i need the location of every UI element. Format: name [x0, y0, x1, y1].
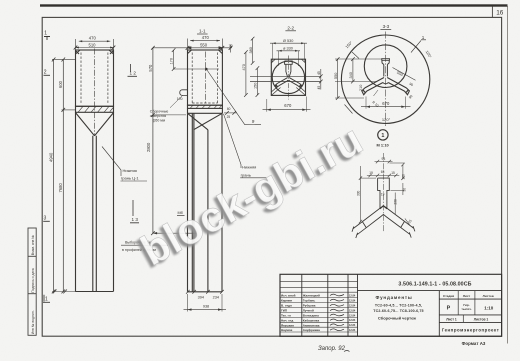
column K2 head bottom hatch band	[188, 105, 223, 108]
svg-text:Лучной: Лучной	[303, 309, 314, 313]
svg-text:938: 938	[203, 304, 209, 308]
svg-text:Кармин: Кармин	[281, 299, 292, 303]
svg-text:1: 1	[422, 35, 425, 40]
K2 under-box	[187, 108, 189, 113]
section 2-2 top corner marks	[271, 59, 305, 63]
left margin stamp strip	[28, 228, 36, 335]
svg-text:Листов: Листов	[483, 294, 494, 298]
svg-text:ТС2-60-4,5... ТС2-100-4,5,: ТС2-60-4,5... ТС2-100-4,5,	[375, 303, 422, 307]
svg-text:550: 550	[334, 73, 338, 79]
section 2-2 circle	[272, 61, 304, 93]
svg-text:600: 600	[58, 80, 63, 88]
svg-text:Инв № подлин.: Инв № подлин.	[31, 310, 35, 334]
svg-text:Фундаменты: Фундаменты	[375, 295, 412, 300]
svg-text:470: 470	[242, 64, 246, 70]
section 3-3 triradial pile section	[362, 59, 410, 95]
svg-text:3-3: 3-3	[383, 24, 390, 29]
detail-1 arm break continuations	[352, 221, 415, 238]
column K2 centre hole dot	[205, 68, 208, 71]
title block right sub-table	[438, 291, 440, 337]
svg-text:В. отдл: В. отдл	[281, 304, 292, 308]
svg-text:510: 510	[89, 42, 97, 47]
svg-text:Взам. инв №: Взам. инв №	[31, 235, 35, 255]
svg-text:3: 3	[44, 216, 47, 222]
title block vertical dividers left table	[301, 274, 303, 336]
label leader to face mark K1	[102, 147, 121, 177]
arm dimension 550 rotated	[393, 68, 416, 81]
watermark block-gbi.ru	[131, 117, 370, 279]
svg-text:19: 19	[381, 193, 385, 197]
svg-text:Рубцова: Рубцова	[303, 304, 316, 308]
svg-text:Акимонова: Акимонова	[303, 323, 320, 327]
svg-text:470: 470	[202, 35, 210, 40]
svg-text:12.84: 12.84	[349, 314, 356, 317]
svg-text:230: 230	[394, 199, 398, 205]
svg-text:234: 234	[213, 296, 219, 300]
svg-text:Запор. 92: Запор. 92	[318, 346, 346, 352]
svg-text:12.84: 12.84	[349, 294, 356, 297]
svg-text:1: 1	[381, 133, 384, 139]
svg-text:ø 330: ø 330	[283, 47, 293, 51]
column K2 head centerline	[204, 52, 206, 105]
section 2-2 triradial core	[275, 61, 301, 88]
svg-text:Лист: Лист	[463, 294, 471, 298]
svg-text:Стадия: Стадия	[443, 294, 454, 298]
svg-text:Жалницкий: Жалницкий	[302, 294, 320, 298]
svg-text:12.84: 12.84	[349, 324, 356, 327]
column K1 head bottom hatch band	[76, 106, 114, 112]
svg-text:9: 9	[252, 119, 255, 124]
column K2 head inner dashed walls	[191, 53, 193, 104]
top heavy sheet edge line	[40, 4, 508, 6]
svg-text:93: 93	[382, 157, 386, 161]
left dims of 3-3	[337, 59, 339, 98]
svg-text:Горбань: Горбань	[303, 299, 316, 303]
svg-text:380: 380	[249, 47, 253, 53]
svg-text:550: 550	[200, 43, 208, 48]
svg-text:12.84: 12.84	[349, 309, 356, 312]
svg-text:2800: 2800	[146, 142, 151, 152]
svg-text:Генпромэнергопроект: Генпромэнергопроект	[442, 327, 499, 332]
svg-text:Наумов: Наумов	[281, 328, 292, 332]
left table small texts	[281, 294, 320, 333]
svg-text:ТС2-60-6,75... ТС8-100-6,75: ТС2-60-6,75... ТС8-100-6,75	[373, 309, 423, 313]
svg-text:12.84: 12.84	[349, 305, 356, 308]
svg-text:45: 45	[317, 71, 321, 75]
svg-text:Нач. отд: Нач. отд	[281, 318, 293, 322]
K1 dimension extension lines	[52, 58, 76, 60]
svg-text:Исч. вной: Исч. вной	[281, 294, 296, 298]
column K1 head inner dashed walls	[80, 53, 82, 105]
right sheet edge line	[507, 6, 509, 344]
page number box 16	[491, 7, 493, 18]
svg-text:170: 170	[170, 58, 174, 64]
K2 right side rotated dims 470 380 150	[245, 52, 247, 95]
svg-text:Кабашкова: Кабашкова	[303, 318, 320, 322]
svg-text:грань Ц-1: грань Ц-1	[121, 176, 140, 181]
svg-text:60: 60	[227, 107, 231, 111]
svg-text:Сборочные: Сборочные	[150, 109, 169, 113]
detail bubble 1	[378, 130, 388, 140]
leader from hole to position 9	[206, 69, 261, 125]
svg-text:670: 670	[284, 103, 292, 108]
svg-text:Тех. гл: Тех. гл	[281, 314, 291, 318]
svg-text:7680: 7680	[58, 183, 63, 193]
svg-text:ГИП: ГИП	[281, 309, 287, 313]
signature squiggles	[330, 294, 344, 330]
column K1 centerline	[94, 49, 96, 137]
K2 taper cross lines	[188, 113, 223, 130]
column K1 taper V	[76, 113, 114, 136]
svg-text:Лист 1: Лист 1	[446, 318, 457, 322]
date column small entries	[349, 294, 356, 332]
svg-text:12.84: 12.84	[349, 299, 356, 302]
column K1 shaft outer edges	[75, 112, 77, 291]
svg-text:4940: 4940	[49, 152, 54, 162]
svg-text:45: 45	[317, 86, 321, 90]
svg-text:12.84: 12.84	[349, 319, 356, 322]
section 3-3 centerline	[385, 32, 387, 127]
K1 left dimension line 4940	[53, 59, 55, 291]
svg-text:тысяч.: тысяч.	[461, 307, 471, 311]
svg-text:670: 670	[382, 101, 390, 106]
svg-text:1:10: 1:10	[484, 305, 494, 310]
svg-text:Якушкин: Якушкин	[281, 323, 294, 327]
leader with position 1	[411, 41, 421, 53]
svg-text:3.506.1-149.1-1 - 05.08.00СБ: 3.506.1-149.1-1 - 05.08.00СБ	[398, 281, 471, 287]
svg-text:25: 25	[227, 115, 231, 119]
svg-text:1-1: 1-1	[199, 29, 206, 34]
label leader нижняя грань K2	[224, 114, 242, 168]
section 2-2 right dims 45 45	[320, 69, 322, 90]
svg-text:1: 1	[44, 31, 47, 37]
K1 second dimension line 600 / 7680	[62, 59, 64, 291]
svg-text:1 3: 1 3	[132, 217, 139, 222]
column K1 head box	[76, 50, 114, 106]
svg-text:Вологдина: Вологдина	[303, 314, 319, 318]
section 3-3 inner circle	[364, 45, 407, 88]
column K1 bottom edge	[76, 291, 114, 293]
detail-1 rail profile shape	[378, 178, 390, 209]
title block document number cell	[358, 290, 502, 292]
section 2-2 centerline vertical	[287, 56, 289, 100]
svg-text:Сборочный чертеж: Сборочный чертеж	[378, 315, 416, 320]
section 2-2 corner chamfer lines	[271, 86, 305, 95]
column K1 head corner marks	[76, 50, 114, 54]
svg-text:отверстия: отверстия	[150, 114, 166, 118]
title block outer box	[280, 274, 502, 336]
svg-text:120°: 120°	[382, 117, 391, 122]
detail-1 centerline	[382, 153, 384, 232]
svg-text:2: 2	[44, 70, 47, 76]
svg-text:Формат А3: Формат А3	[462, 341, 486, 346]
svg-text:210: 210	[359, 85, 363, 91]
svg-text:1: 1	[45, 297, 48, 303]
svg-text:330: 330	[356, 190, 360, 196]
svg-text:Листов 1: Листов 1	[474, 318, 489, 322]
section 2-2 brace bars horizontal	[250, 75, 321, 77]
drawing frame border	[42, 17, 501, 336]
svg-text:ф50 мм: ф50 мм	[153, 119, 166, 123]
title block left table row lines	[280, 281, 358, 332]
svg-text:340: 340	[349, 72, 353, 78]
svg-text:16: 16	[496, 10, 504, 17]
section 3-3 outer circle	[341, 35, 429, 123]
K2 lifting loop left	[180, 90, 188, 96]
svg-text:394: 394	[198, 295, 204, 299]
svg-text:570: 570	[148, 64, 153, 72]
svg-text:Подпись и дата: Подпись и дата	[31, 268, 35, 293]
section 2-2 outer square	[271, 59, 305, 95]
column K2 head box	[188, 50, 223, 105]
column K2 shaft edges	[187, 113, 189, 291]
svg-text:М 1:10: М 1:10	[377, 142, 389, 147]
svg-text:15: 15	[391, 171, 395, 175]
svg-text:Р: Р	[447, 306, 451, 312]
svg-text:Ø 530: Ø 530	[283, 39, 293, 43]
column K2 head corner marks	[188, 50, 223, 54]
column K2 bottom edge	[188, 291, 223, 293]
svg-text:470: 470	[89, 36, 97, 41]
svg-text:65: 65	[381, 170, 385, 174]
svg-text:Гир.: Гир.	[463, 303, 469, 307]
svg-text:12.84: 12.84	[349, 329, 356, 332]
svg-text:Нижняя: Нижняя	[123, 168, 137, 173]
svg-text:Ануфриева: Ануфриева	[303, 328, 320, 332]
svg-text:2-2: 2-2	[287, 25, 294, 30]
column K1 stem edges	[92, 136, 94, 292]
svg-text:150: 150	[254, 83, 258, 89]
